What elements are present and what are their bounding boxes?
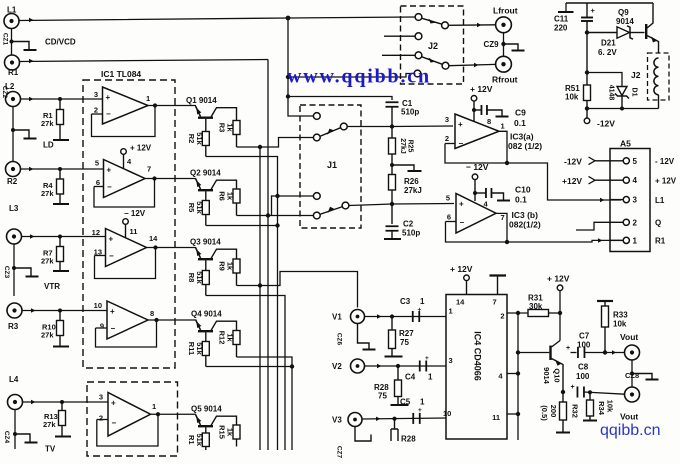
svg-text:R3: R3 [8, 322, 19, 331]
svg-text:R33: R33 [613, 311, 628, 320]
svg-text:3: 3 [633, 196, 638, 205]
svg-text:CZ7: CZ7 [336, 446, 343, 459]
transistor Q3 9014 [196, 248, 201, 259]
connector jack R3 [7, 303, 22, 318]
node CZ9 ground [501, 42, 505, 46]
svg-text:1: 1 [633, 236, 638, 245]
capacitor C3 1u [412, 311, 414, 322]
op-amp U12 [104, 160, 146, 198]
node CZ8 ground [630, 371, 634, 375]
node C1/J1/pin3 [390, 124, 394, 128]
node R26/C2/pin5 [390, 202, 394, 206]
svg-text:2: 2 [500, 312, 504, 321]
svg-text:10k: 10k [613, 320, 627, 329]
switch J1 lower lever [320, 207, 343, 215]
wire feedback pin2 [97, 419, 108, 421]
svg-text:7: 7 [501, 213, 505, 222]
node C7/R33 [603, 350, 607, 354]
capacitor C2 510p [386, 225, 399, 227]
svg-text:082(1/2): 082(1/2) [509, 220, 541, 230]
relay coil J2 dashed box [648, 53, 670, 100]
resistor R33 10k [597, 300, 613, 302]
node L1/J2 branch [286, 75, 290, 79]
svg-text:Q9: Q9 [618, 8, 629, 17]
svg-text:0.1: 0.1 [515, 195, 527, 205]
svg-text:51k: 51k [195, 342, 204, 355]
svg-text:R2: R2 [7, 177, 18, 186]
wire L4 shell [14, 410, 16, 450]
wire L4 to op-amp [23, 401, 109, 403]
svg-text:V1: V1 [332, 313, 342, 322]
node IC3a out [505, 161, 509, 165]
node bus3/R5 [275, 223, 279, 227]
ground between R25/R26 [392, 165, 414, 171]
svg-text:51k: 51k [195, 201, 204, 214]
svg-text:R6: R6 [218, 191, 227, 201]
ground VTR [14, 268, 31, 276]
wire op2 output [145, 178, 196, 180]
wire bus4 (Q3 emitter) [206, 296, 285, 451]
svg-text:75: 75 [400, 338, 409, 347]
svg-text:C3: C3 [400, 297, 411, 306]
wire J2 NC upper [384, 35, 415, 37]
svg-text:C4: C4 [405, 373, 416, 382]
svg-text:5: 5 [633, 157, 638, 166]
wire V3 to pin10 [362, 418, 446, 419]
resistor R28 75 [397, 366, 399, 380]
wire Q2 jog to J1 [272, 196, 315, 216]
svg-text:2: 2 [445, 134, 449, 143]
wire L2 to op-amp [21, 98, 103, 100]
transistor Q10 9014 [549, 346, 551, 361]
svg-text:51k: 51k [195, 271, 204, 284]
svg-text:R11: R11 [187, 342, 196, 355]
connector jack R1 [5, 55, 20, 70]
resistor R13 27k [61, 402, 63, 411]
wire IC3b pin6 [446, 221, 457, 223]
svg-text:1k: 1k [226, 262, 235, 271]
wire bus3 (Q1 emitter) [206, 157, 278, 451]
svg-text:L1: L1 [655, 196, 665, 205]
svg-text:27k: 27k [43, 420, 56, 429]
svg-text:1k: 1k [226, 333, 235, 342]
wire Q4 emitter res bottom [206, 366, 292, 368]
svg-text:2: 2 [633, 218, 638, 227]
wire R3 to op-amp [22, 310, 107, 312]
ground CZ8 [632, 374, 652, 380]
svg-text:1k: 1k [226, 123, 235, 132]
resistor R1 51k [202, 433, 209, 447]
svg-text:4148: 4148 [608, 85, 615, 101]
svg-text:082 (1/2): 082 (1/2) [508, 141, 542, 151]
capacitor C8 100 [576, 387, 578, 398]
node bus1 top [258, 145, 262, 149]
connector jack Rfrout [496, 56, 512, 72]
resistor R7 27k [59, 237, 61, 247]
resistor R26 27k [389, 175, 396, 191]
resistor R27 75 [391, 317, 393, 331]
svg-text:IC1 TL084: IC1 TL084 [101, 69, 141, 79]
svg-text:Q3 9014: Q3 9014 [190, 238, 221, 247]
op-amp IC3(b) 082 [456, 194, 496, 234]
svg-text:+: + [111, 399, 116, 408]
IC1 TL084 dashed box [83, 80, 175, 368]
svg-text:14: 14 [149, 234, 158, 243]
node op4 output [154, 318, 158, 322]
svg-text:3: 3 [94, 90, 98, 99]
svg-text:7: 7 [147, 165, 151, 174]
svg-text:www.qqibb.cn: www.qqibb.cn [287, 66, 431, 88]
wire IC3b out to A5 pin1 [507, 240, 621, 242]
ground C2 [384, 238, 401, 240]
wire to Rfrout [449, 64, 496, 65]
svg-text:9014: 9014 [616, 17, 634, 26]
connector jack Vout L [625, 345, 640, 360]
svg-text:11: 11 [492, 413, 500, 422]
node op2 output [152, 176, 156, 180]
connector jack Vout R [625, 387, 640, 402]
node Q10 emitter [561, 390, 565, 394]
A5 pin 2 (Q) [610, 221, 623, 223]
svg-text:R1: R1 [655, 237, 666, 246]
svg-text:L3: L3 [9, 204, 19, 213]
svg-text:6: 6 [447, 213, 451, 222]
resistor R51 10k [584, 85, 591, 101]
ground V1 shell [358, 324, 370, 350]
op-amp IC3(a) 082 [455, 114, 499, 149]
switch J2 upper lever [422, 18, 443, 24]
svg-text:C11: C11 [554, 15, 569, 24]
wire bottom rail relay [587, 108, 659, 110]
connector jack Lfrout [496, 17, 512, 33]
wire V2 to pin3 [365, 365, 447, 367]
node V1/R27 [390, 314, 394, 318]
svg-text:+: + [459, 200, 464, 209]
resistor R11 51k [202, 342, 209, 356]
svg-text:−: − [112, 418, 117, 427]
wire feedback pin2 [92, 113, 103, 115]
capacitor C11 220 [558, 11, 574, 13]
svg-text:+ 12V: + 12V [547, 274, 570, 284]
node op1 output [153, 103, 157, 107]
wire R1 to bus [20, 60, 269, 62]
node L3/R7 [58, 235, 62, 239]
svg-text:− 12V: − 12V [124, 209, 146, 218]
power +12V op2 pin4 [121, 149, 127, 155]
connector CZ1 jack L1 [4, 14, 19, 29]
svg-text:CZ3: CZ3 [3, 266, 10, 279]
svg-text:510p: 510p [402, 229, 420, 238]
svg-text:Rfrout: Rfrout [492, 75, 518, 85]
svg-text:1: 1 [449, 307, 453, 316]
svg-text:2: 2 [99, 414, 103, 423]
wire 4066 output bus [517, 313, 519, 440]
capacitor C9 0.1 [480, 105, 482, 115]
op-amp U14 [107, 301, 148, 339]
wire to Vout L [585, 352, 625, 354]
svg-text:C8: C8 [578, 363, 589, 372]
connector jack V2 [351, 359, 365, 373]
wire op3 output [147, 247, 197, 249]
wire IC3b output [496, 213, 507, 242]
ground CD/VCD [12, 42, 30, 50]
node R31/+12V [558, 311, 562, 315]
transistor Q1 9014 [196, 106, 201, 117]
resistor R2 51k [202, 132, 209, 146]
wire bus2 (R1 signal) [267, 60, 269, 451]
svg-text:1: 1 [428, 373, 433, 382]
wire V1 to pin1 [365, 316, 447, 318]
svg-text:27k: 27k [41, 189, 54, 198]
node -12V rail [585, 106, 589, 110]
node bus 4066 [516, 311, 520, 315]
wire L3 to op-amp [22, 236, 106, 238]
svg-text:9: 9 [100, 322, 104, 331]
svg-text:Q5 9014: Q5 9014 [191, 405, 222, 414]
relay J1 dashed box [300, 105, 361, 228]
svg-text:11: 11 [130, 227, 138, 236]
svg-text:V2: V2 [332, 362, 342, 371]
svg-text:1k: 1k [226, 428, 235, 437]
node zener feed [585, 30, 589, 34]
transistor Q5 9014 [196, 415, 201, 426]
wire IC3a out to A5 pin3 [507, 163, 621, 200]
svg-text:+: + [107, 166, 112, 175]
svg-text:27k: 27k [41, 119, 54, 128]
node R51/D1 [585, 70, 589, 74]
connector jack L2 [6, 92, 21, 107]
connector jack V3 [348, 413, 362, 427]
svg-text:CD/VCD: CD/VCD [45, 38, 76, 47]
A5 pin 1 (R1) [610, 239, 623, 241]
wire op5 output [151, 413, 197, 415]
A5 pin 3 (L1) [610, 199, 623, 201]
wire to D1 [587, 73, 622, 87]
node bus1/Q3 [258, 283, 262, 287]
node C9 tap [472, 108, 476, 112]
svg-text:1: 1 [152, 402, 156, 411]
svg-text:R8: R8 [187, 273, 196, 283]
svg-text:+: + [571, 384, 575, 391]
resistor R3 1k [233, 121, 240, 135]
svg-text:−: − [111, 324, 116, 333]
svg-text:R15: R15 [218, 425, 227, 439]
svg-text:51k: 51k [195, 132, 204, 145]
svg-text:27k: 27k [41, 331, 54, 340]
wire IC3a feedback [445, 144, 507, 164]
svg-text:75: 75 [378, 392, 387, 401]
wire bus5 (Q4 output) [237, 357, 293, 450]
capacitor C5 1u [412, 413, 414, 424]
wire Lfrout-Rfrout shell [503, 33, 505, 57]
svg-text:3: 3 [449, 356, 453, 365]
svg-text:C7: C7 [579, 332, 590, 341]
svg-text:- 12V: - 12V [655, 157, 675, 166]
svg-text:−: − [109, 252, 114, 261]
svg-text:Vout: Vout [620, 412, 638, 422]
node R34 tap [588, 390, 592, 394]
svg-text:IC3(a): IC3(a) [510, 132, 534, 142]
svg-text:R34: R34 [597, 401, 606, 416]
wire pin11 [507, 413, 518, 415]
svg-text:C5: C5 [400, 398, 411, 407]
resistor R25 27k [389, 138, 396, 154]
svg-text:qqibb.cn: qqibb.cn [600, 422, 661, 439]
svg-text:1: 1 [420, 297, 425, 306]
svg-text:+: + [109, 235, 114, 244]
ground IC4 pin7 [490, 274, 507, 276]
capacitor C4 1u [419, 361, 421, 372]
A5 pin 5 (- 12V) [610, 160, 623, 162]
wire to IC3a pin3 [392, 125, 453, 128]
svg-text:4: 4 [633, 176, 638, 185]
wire L2-R2 shell [12, 107, 14, 162]
resistor R6 1k [233, 189, 240, 203]
wire J1 out to C2 node [349, 204, 392, 206]
svg-text:5: 5 [446, 194, 450, 203]
capacitor (electrolytic) plates [586, 3, 588, 17]
svg-text:CZ9: CZ9 [484, 40, 500, 49]
svg-text:Q2 9014: Q2 9014 [190, 169, 221, 178]
svg-text:LD: LD [43, 141, 54, 150]
svg-text:V3: V3 [332, 416, 342, 425]
svg-text:TV: TV [45, 445, 56, 454]
switch J1 upper lever [320, 128, 341, 137]
svg-text:5: 5 [95, 159, 99, 168]
wire L1-R1 shell [11, 29, 13, 56]
wire L1 to J2 [19, 17, 416, 21]
svg-text:+: + [110, 307, 115, 316]
svg-text:9014: 9014 [542, 367, 551, 385]
A5 pin 4 (+ 12V) [610, 179, 623, 181]
wire L3-R3 shell [13, 244, 15, 296]
node C10 tap [473, 191, 477, 195]
node op3 output [153, 245, 157, 249]
wire Q2 emitter res bottom [206, 225, 278, 227]
svg-text:VTR: VTR [44, 282, 60, 291]
diode D1 4148 [617, 87, 627, 96]
svg-text:CZ6: CZ6 [336, 333, 343, 346]
svg-text:(0.5): (0.5) [540, 405, 549, 421]
node bus3 J1 feed [275, 194, 279, 198]
resistor R15 1k [233, 425, 240, 439]
wire +rail top [566, 2, 653, 4]
svg-text:-12V: -12V [564, 157, 582, 167]
svg-text:2: 2 [94, 106, 98, 115]
svg-text:27kJ: 27kJ [399, 138, 406, 154]
resistor R1 27k [59, 99, 61, 110]
resistor R10 27k [59, 311, 61, 321]
wire pin2 to R31 [507, 312, 528, 314]
svg-text:Q: Q [655, 219, 661, 228]
ground V3 shell [355, 427, 371, 442]
svg-text:A5: A5 [620, 139, 631, 149]
wire IC3a output [499, 131, 507, 163]
node op5 output [156, 412, 160, 416]
svg-text:CZ2: CZ2 [1, 86, 8, 99]
svg-text:27kJ: 27kJ [404, 186, 422, 195]
svg-text:+: + [566, 345, 570, 352]
wire Q1 output to J1 [237, 138, 315, 148]
svg-text:27k: 27k [41, 257, 54, 266]
svg-text:100: 100 [577, 340, 591, 349]
resistor R28 (second) [394, 419, 396, 429]
svg-text:+ 12V: + 12V [470, 84, 493, 94]
svg-text:IC3 (b): IC3 (b) [512, 210, 539, 220]
svg-text:3: 3 [445, 115, 449, 124]
resistor R4 27k [59, 169, 61, 179]
ground CZ9 [504, 44, 519, 50]
svg-text:+ 12V: + 12V [450, 264, 473, 274]
wire to Vout R [584, 392, 625, 394]
svg-text:+12V: +12V [562, 176, 582, 186]
wire L1 to C1 [288, 97, 392, 101]
svg-text:1: 1 [146, 94, 150, 103]
wire Q2 collector res bottom [237, 215, 315, 217]
wire IC3b feedback [446, 222, 508, 243]
IC2 dashed box (5th op-amp) [87, 382, 178, 456]
capacitor C1 510p [386, 101, 399, 103]
svg-text:Q1 9014: Q1 9014 [186, 96, 217, 105]
svg-text:+: + [458, 120, 463, 129]
svg-text:+ 12V: + 12V [655, 176, 677, 185]
svg-text:−: − [106, 110, 111, 119]
wire to C7 [571, 352, 577, 354]
wire to IC3b pin5 [392, 203, 454, 206]
node L1/C1 branch [286, 94, 290, 98]
node VTR ground [12, 266, 16, 270]
svg-text:L4: L4 [9, 375, 19, 384]
resistor R12 1k [233, 331, 240, 345]
svg-text:8: 8 [487, 117, 491, 126]
resistor R32 200 (0.5) [562, 392, 564, 402]
svg-text:−: − [459, 139, 464, 148]
svg-text:200: 200 [549, 405, 558, 418]
node R3/R10 [58, 309, 62, 313]
node IC3b out [505, 240, 509, 244]
node TV ground [13, 432, 17, 436]
svg-text:IC4 CD4066: IC4 CD4066 [473, 331, 483, 381]
svg-text:R26: R26 [404, 177, 419, 186]
inductor relay coil [654, 58, 659, 95]
wire L1 to J2 lower contact [288, 74, 414, 78]
svg-text:R9: R9 [218, 261, 227, 271]
wire R2 to op-amp [21, 168, 104, 170]
resistor R5 51k [202, 201, 209, 215]
resistor R34 10k [589, 392, 591, 400]
svg-text:6. 2V: 6. 2V [598, 48, 617, 57]
node R25/R26 [390, 163, 394, 167]
switch J2 lower lever [422, 57, 443, 65]
node L2/R1 [58, 97, 62, 101]
svg-text:CZ4: CZ4 [3, 431, 10, 444]
svg-text:510p: 510p [401, 108, 419, 117]
svg-text:1: 1 [501, 122, 505, 131]
svg-text:R2: R2 [187, 134, 196, 144]
node L1 junction [286, 16, 291, 21]
op-amp U15 [108, 393, 151, 437]
wire op1 output [148, 105, 196, 107]
svg-text:Vout: Vout [620, 332, 638, 342]
svg-text:220: 220 [554, 24, 568, 33]
ground TV [15, 434, 30, 442]
svg-text:CZ8: CZ8 [625, 371, 639, 380]
svg-text:10: 10 [94, 301, 102, 310]
ground LD [13, 130, 29, 138]
svg-text:6: 6 [96, 178, 100, 187]
wire pin4 [507, 373, 518, 375]
svg-text:3: 3 [99, 393, 103, 402]
